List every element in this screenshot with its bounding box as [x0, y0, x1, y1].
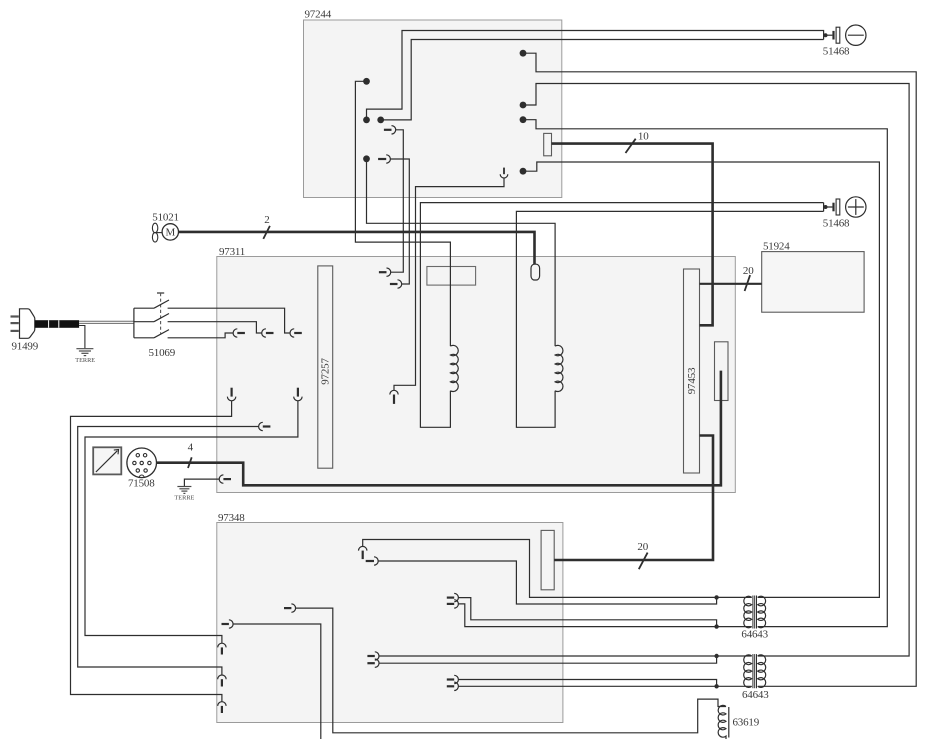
- motor 51021: [152, 223, 178, 242]
- heater element 1 coil: [450, 345, 458, 391]
- connector B3 in 97311 (down): [294, 388, 302, 401]
- wire dotG to transformer2 top right: [523, 84, 909, 657]
- svg-text:97348: 97348: [218, 512, 245, 524]
- wire G2 to A2: [390, 159, 409, 284]
- svg-text:51468: 51468: [823, 46, 850, 58]
- svg-text:51468: 51468: [823, 217, 850, 229]
- connector 71508: [127, 448, 157, 478]
- wire 2 thick: motor to terminal in 97311: [179, 232, 535, 266]
- wire dotA to heater1 coil top: [355, 81, 450, 346]
- wire D2a to transformer2 top: [379, 655, 752, 657]
- connector E1 in 97348 (right): [284, 604, 296, 612]
- terminal capsule in 97311: [531, 264, 540, 280]
- wire dotH to transformer1 bottom right: [523, 120, 887, 627]
- wire size slash 2: [263, 226, 270, 239]
- wire 4 thick: 71508 to 97311 connector rect: [157, 371, 721, 486]
- svg-text:10: 10: [638, 130, 649, 142]
- connector A1 in 97311: [379, 268, 391, 276]
- wire size slash 4: [188, 457, 192, 468]
- transformer 64643 (upper): [744, 596, 766, 629]
- svg-text:51021: 51021: [152, 212, 179, 224]
- svg-text:71508: 71508: [128, 477, 155, 489]
- connector D2b in 97348 (right, pair): [367, 659, 379, 667]
- node dots in 97244: [363, 50, 526, 175]
- box 51924: [762, 241, 864, 313]
- wire H2 to transformer1 top junction: [378, 561, 716, 604]
- connector D3b in 97348 (right, pair): [447, 682, 459, 690]
- svg-text:TERRE: TERRE: [174, 494, 194, 501]
- wire B4 to ground: [184, 479, 219, 486]
- ground TERRE (mains): [76, 349, 93, 356]
- wire G1 to A1: [391, 130, 404, 272]
- wire dotC to minus lamp: [381, 40, 824, 120]
- svg-text:4: 4: [188, 441, 194, 453]
- svg-text:20: 20: [743, 265, 754, 277]
- connector strip 97257: [318, 266, 333, 468]
- switch 51069: [134, 293, 169, 338]
- connector G2 in 97244: [378, 155, 390, 163]
- connector F2 in 97348 (up): [218, 675, 226, 687]
- lamp 51468 (plus): [823, 197, 866, 230]
- connector S1 in 97311: [233, 329, 245, 337]
- connector E2 in 97348 (right): [222, 620, 234, 628]
- connector H1 in 97348 (up): [359, 546, 367, 559]
- connector H3b in 97348 (right, pair): [447, 600, 459, 608]
- connector B1 in 97311 (down): [227, 388, 235, 401]
- svg-text:TERRE: TERRE: [75, 357, 95, 364]
- connector A2 in 97311: [390, 280, 402, 288]
- inductor 63619: [718, 705, 729, 739]
- connector C3 in 97311: [390, 390, 398, 404]
- wire cable conductors to switch: [79, 321, 134, 323]
- wire dotE to transformer1 top right: [523, 162, 879, 597]
- wire D3b to transformer2 bottom: [458, 685, 751, 687]
- svg-text:51924: 51924: [763, 241, 790, 253]
- svg-text:64643: 64643: [742, 689, 769, 701]
- ground probe in 97244: [500, 168, 508, 178]
- svg-text:97244: 97244: [305, 9, 332, 21]
- transformer 64643 (lower): [744, 654, 766, 688]
- thermostat rect on heater 1: [427, 267, 476, 286]
- wire ground probe to connector C3: [394, 178, 504, 390]
- wire E2 down off canvas: [233, 624, 321, 739]
- connector H3a in 97348 (right, pair): [447, 593, 459, 601]
- block 97348: [217, 512, 563, 723]
- wire H1 to transformer1 top: [363, 540, 752, 598]
- svg-text:97453: 97453: [686, 367, 698, 394]
- wire H3a to transformer1 bottom junction: [458, 598, 716, 627]
- block 97244: [304, 9, 562, 198]
- plug 91499: [11, 309, 39, 353]
- lamp 51468 (minus): [823, 25, 866, 58]
- wire B1 to connector F3 in 97348: [71, 401, 232, 702]
- wire heater2 bottom return to plus lamp: [516, 211, 823, 427]
- svg-text:2: 2: [264, 214, 269, 226]
- connector F3 in 97348 (up): [218, 702, 226, 713]
- wire size slash 20 (lower): [639, 553, 648, 570]
- connector S3 in 97311: [290, 329, 302, 337]
- connector D2a in 97348 (right, pair): [367, 652, 379, 660]
- connector D3a in 97348 (right, pair): [447, 675, 459, 683]
- connector H2 in 97348 (right): [366, 557, 379, 565]
- svg-text:91499: 91499: [12, 340, 39, 352]
- wire 10 thick: 97244 to 97453: [552, 144, 713, 326]
- connector S2 in 97311: [262, 329, 274, 337]
- connector strip 97453: [684, 269, 700, 473]
- connector B2 in 97311 (left): [259, 422, 271, 430]
- svg-text:51069: 51069: [149, 347, 176, 359]
- wire D3a to transformer2 bottom junction: [458, 680, 716, 687]
- svg-text:97311: 97311: [219, 246, 245, 258]
- power cable: [35, 320, 79, 328]
- connector rect in 97244 (10-way): [544, 133, 552, 155]
- block 97311: [217, 246, 736, 493]
- wire 20 thick: 97453 to 97348 connector: [554, 436, 713, 561]
- wire size slash 20: [745, 275, 751, 291]
- svg-text:97257: 97257: [320, 358, 332, 385]
- svg-text:64643: 64643: [741, 629, 768, 641]
- heater element 2 coil: [555, 345, 563, 391]
- wire dotB to minus lamp: [367, 31, 824, 120]
- wire switch pole3 to connector S1: [168, 333, 234, 338]
- wire 20: 97453 to 51924: [700, 283, 762, 285]
- wire B2 to connector F2 in 97348: [78, 427, 259, 676]
- wire earth conductor: [79, 326, 85, 349]
- wire E1 to inductor 63619: [296, 608, 726, 733]
- ground TERRE (71508): [177, 487, 191, 494]
- svg-text:M: M: [166, 227, 176, 239]
- svg-text:63619: 63619: [733, 716, 760, 728]
- wire D2b to transformer2 top junction: [379, 656, 717, 663]
- potentiometer square: [93, 447, 121, 474]
- connector B4 in 97311 (left): [219, 475, 231, 483]
- wire switch pole1 to connector S3: [168, 308, 290, 333]
- svg-text:20: 20: [637, 541, 648, 553]
- connector rect in 97311 (right): [715, 342, 729, 401]
- wire heater1 bottom return to plus lamp: [420, 203, 823, 428]
- junction dots transformer 1: [714, 595, 718, 599]
- wire dotD to heater2 coil top: [367, 159, 556, 346]
- junction dots transformer 2: [714, 654, 718, 658]
- wire switch pole2 to connector S2: [168, 322, 262, 333]
- wire plus lamp converge: [824, 203, 833, 212]
- connector F1 in 97348 (up): [218, 643, 226, 654]
- wire size slash 10: [626, 139, 636, 153]
- wire H3b to transformer1 bottom: [458, 604, 751, 627]
- wire B3 to connector F1 in 97348: [85, 401, 298, 643]
- wire dotF to transformer2 bottom right: [523, 53, 916, 686]
- connector G1 in 97244: [384, 126, 396, 134]
- wire stub minus lamp: [824, 34, 833, 36]
- connector rect in 97348: [541, 530, 554, 589]
